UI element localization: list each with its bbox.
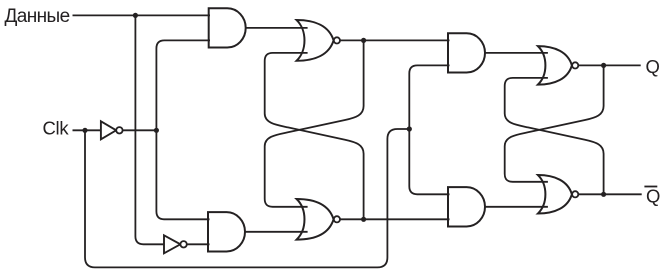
wire master latch feedback U4 to U3 [265, 53, 364, 219]
svg-text:Clk: Clk [43, 117, 70, 138]
wire slave latch feedback U8 to U7 [505, 78, 604, 194]
wire U2 output to U4 input [245, 231, 308, 233]
svg-text:Q: Q [646, 186, 660, 207]
wire U8 output to Q-bar [578, 193, 641, 195]
wire Data vertical feed to inverter U10 [135, 15, 164, 244]
wire U5 output to U7 input [485, 52, 548, 54]
inversion bubble of U4 [334, 216, 340, 222]
inversion bubble of U9 [116, 127, 122, 133]
junction inverted clock node [154, 128, 159, 133]
inversion bubble of U10 [180, 241, 186, 247]
svg-text:Данные: Данные [5, 6, 70, 27]
wire U6 output to U8 input [485, 206, 548, 208]
AND gate U5 (slave, top) [448, 33, 485, 72]
NOR gate U8 (slave latch, bottom, output Q-bar) [538, 175, 572, 214]
NOR gate U7 (slave latch, top, output Q) [538, 46, 572, 85]
wire U7 output to Q [578, 64, 640, 66]
AND gate U1 (master, top) [209, 8, 246, 47]
wire inverted clock up to U1 input [156, 40, 210, 130]
wire inverter U9 output [123, 129, 157, 131]
svg-text:Q: Q [646, 56, 660, 77]
wire inverter U10 output to U2 input [187, 243, 210, 245]
wire U1 output to U3 input [246, 27, 308, 29]
inversion bubble of U3 [334, 37, 340, 43]
NOR gate U3 (master latch, top) [297, 20, 334, 61]
AND gate U6 (slave, bottom) [448, 187, 485, 226]
wire Data input [73, 14, 211, 16]
junction U3 output node [361, 38, 366, 43]
junction on Clk line [82, 128, 87, 133]
NOR gate U4 (master latch, bottom) [297, 199, 334, 240]
inverter U9 triangle (Clk inverter) [101, 121, 116, 139]
junction Q-bar node [601, 192, 606, 197]
junction on Data line [133, 13, 138, 18]
junction U4 output node [361, 217, 366, 222]
wire inverted clock down to U2 input [156, 130, 209, 219]
inverter U10 triangle (Data inverter) [164, 235, 180, 253]
inversion bubble of U7 [572, 62, 578, 68]
junction slave clock node [407, 126, 412, 131]
wire U4 output to U6 input [340, 218, 450, 220]
wire clock node up to U5 input [409, 65, 449, 129]
AND gate U2 (master, bottom) [208, 212, 245, 251]
wire slave latch feedback U7 to U8 [505, 65, 604, 181]
junction Q node [601, 63, 606, 68]
wire U3 output to U5 input [340, 39, 450, 41]
wire Clk input [73, 129, 101, 131]
wire Clk routed to slave stage [85, 129, 409, 267]
overline of Q-bar [644, 186, 657, 188]
inversion bubble of U8 [572, 191, 578, 197]
wire clock node down to U6 input [409, 129, 449, 194]
wire master latch feedback U3 to U4 [265, 40, 364, 206]
